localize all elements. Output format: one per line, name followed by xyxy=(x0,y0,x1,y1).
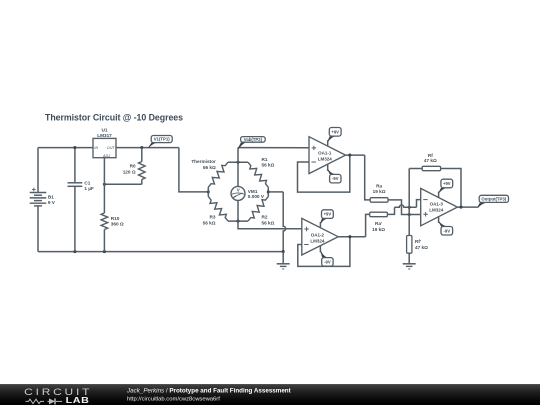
wire bottom rail xyxy=(38,251,283,253)
wire bridge bottom corner xyxy=(228,220,248,222)
node ground rail xyxy=(282,250,285,253)
flag -9V OA1-3 xyxy=(441,227,453,236)
svg-text:+9V: +9V xyxy=(443,181,451,186)
svg-text:V1(TP1): V1(TP1) xyxy=(154,137,171,142)
svg-text:Output(TP3): Output(TP3) xyxy=(481,196,506,201)
svg-text:Vab(TP2): Vab(TP2) xyxy=(244,137,263,142)
svg-text:Thermistor Circuit @ -10 Degre: Thermistor Circuit @ -10 Degrees xyxy=(45,112,183,122)
thermistor arm xyxy=(208,162,228,187)
node bridge right xyxy=(267,190,270,193)
flag -9V OA1-1 xyxy=(330,174,341,183)
svg-text:56 kΩ: 56 kΩ xyxy=(262,220,275,225)
flag -9V OA1-1 lead xyxy=(327,164,329,171)
svg-text:R10: R10 xyxy=(111,216,120,221)
wire Rf' bottom xyxy=(408,253,410,263)
flag V1(TP1) pointer xyxy=(148,143,157,149)
node battery-C1 bottom xyxy=(73,250,76,253)
flag +9V OA1-1 lead xyxy=(327,140,329,146)
svg-text:+9V: +9V xyxy=(331,129,339,134)
op-amp OA1-1 xyxy=(309,137,346,174)
svg-text:19 kΩ: 19 kΩ xyxy=(373,189,386,194)
flag -9V OA1-2 xyxy=(322,258,333,267)
svg-text:Rf’: Rf’ xyxy=(415,239,421,244)
wire VM1 bottom lead xyxy=(237,200,239,221)
battery plus sign xyxy=(32,188,36,192)
wire VM1 top lead xyxy=(237,162,239,187)
svg-text:19 kΩ: 19 kΩ xyxy=(372,227,385,232)
battery B1 xyxy=(30,192,47,194)
svg-text:56 kΩ: 56 kΩ xyxy=(203,220,216,225)
svg-text:R3: R3 xyxy=(210,215,216,220)
wire OA1-3 output xyxy=(457,206,477,208)
node OA1-2 output xyxy=(348,235,351,238)
svg-text:LM317: LM317 xyxy=(97,133,112,138)
wire battery bottom lead xyxy=(37,206,39,252)
node V1(TP1) junction xyxy=(140,146,143,149)
svg-text:1 µF: 1 µF xyxy=(84,186,94,191)
resistor R3 arm xyxy=(208,197,228,222)
svg-text:IN: IN xyxy=(94,146,98,150)
wire OA1-1 feedback xyxy=(298,155,350,192)
node minus input junction xyxy=(408,206,411,209)
wire corner to OA1-1 xyxy=(238,147,309,149)
svg-text:R0: R0 xyxy=(130,164,136,169)
wire R10 bottom lead xyxy=(103,230,105,252)
wire OA1-1 out to Ra xyxy=(365,155,371,200)
svg-text:OA1-2: OA1-2 xyxy=(311,232,325,237)
flag +9V OA1-1 xyxy=(329,128,341,137)
svg-text:LM324: LM324 xyxy=(429,208,444,213)
node bridge top xyxy=(236,161,239,164)
svg-text:R1: R1 xyxy=(262,157,268,162)
node plus input junction xyxy=(408,213,411,216)
svg-text:Ra’: Ra’ xyxy=(375,221,382,226)
resistor Ra xyxy=(370,198,388,203)
wire bridge left corner xyxy=(207,187,209,196)
svg-text:47 kΩ: 47 kΩ xyxy=(415,245,428,250)
wire OA1-1 output xyxy=(346,154,365,156)
flag -9V OA1-3 lead xyxy=(438,216,440,223)
flag +9V OA1-3 xyxy=(441,179,453,188)
wire Rf right xyxy=(441,169,461,208)
voltmeter VM1 xyxy=(231,186,245,200)
node OA1-1 output xyxy=(348,154,351,157)
resistor R2 arm xyxy=(248,197,268,222)
wire R0 top lead xyxy=(141,148,143,162)
wire OA1-2 output xyxy=(338,236,365,238)
svg-text:-9V: -9V xyxy=(324,259,331,264)
wire OA1-2 out to Ra' xyxy=(366,214,370,236)
svg-text:47 kΩ: 47 kΩ xyxy=(424,158,437,163)
node bridge left xyxy=(207,190,210,193)
flag -9V OA1-2 lead xyxy=(319,246,321,253)
svg-text:120 Ω: 120 Ω xyxy=(123,170,136,175)
ground main xyxy=(282,252,284,264)
wire bridge top corner xyxy=(228,161,248,163)
node C1 top xyxy=(73,146,76,149)
svg-text:ADJ: ADJ xyxy=(102,154,110,158)
op U1 LM317 box xyxy=(93,138,116,157)
svg-text:-9V: -9V xyxy=(444,228,451,233)
wire bridge right corner xyxy=(267,187,269,196)
wire R0 bottom lead xyxy=(141,180,143,185)
wire OA1-2 feedback xyxy=(298,237,350,267)
resistor Rf' xyxy=(407,236,412,254)
svg-text:OA1-3: OA1-3 xyxy=(430,202,444,207)
wire bridge bottom to OA1-2 + xyxy=(238,221,302,229)
svg-text:Thermistor: Thermistor xyxy=(191,159,216,164)
svg-text:56 kΩ: 56 kΩ xyxy=(262,163,275,168)
flag Output(TP3) pointer xyxy=(477,202,487,207)
svg-text:56 kΩ: 56 kΩ xyxy=(203,165,216,170)
logo resistor-diode xyxy=(26,399,45,403)
flag Output(TP3) xyxy=(479,195,508,202)
flag Vab(TP2) xyxy=(241,137,266,143)
svg-text:-9V: -9V xyxy=(332,176,339,181)
svg-text:9 V: 9 V xyxy=(48,200,56,205)
wire bridge top to corner xyxy=(237,148,239,163)
resistor Ra' xyxy=(370,212,388,217)
svg-text:0.000 V: 0.000 V xyxy=(248,194,265,199)
svg-text:LM324: LM324 xyxy=(310,238,325,243)
op-amp OA1-2 xyxy=(302,218,338,255)
svg-text:OUT: OUT xyxy=(107,146,116,150)
flag V1(TP1) xyxy=(151,136,172,143)
resistor R1 arm xyxy=(248,162,268,187)
wire Ra' to OA1-3 - xyxy=(387,207,394,214)
wire Ra to OA1-3 + xyxy=(388,200,421,215)
svg-text:360 Ω: 360 Ω xyxy=(111,222,124,227)
flag +9V OA1-2 lead xyxy=(319,222,321,228)
wire U1 OUT rail xyxy=(116,147,179,149)
node bridge bottom xyxy=(236,220,239,223)
flag +9V OA1-3 lead xyxy=(438,192,440,198)
capacitor C1 xyxy=(68,182,83,184)
wire ADJ lead xyxy=(103,158,105,213)
wire Rf left xyxy=(409,168,422,170)
svg-text:Jack_Perkins / Prototype and F: Jack_Perkins / Prototype and Fault Findi… xyxy=(126,387,291,394)
wire top rail battery to U1 IN xyxy=(38,147,93,149)
svg-text:http://circuitlab.com/cwz8cwse: http://circuitlab.com/cwz8cwsewa6rf xyxy=(127,397,220,403)
wire battery top lead xyxy=(37,148,39,193)
resistor R0 xyxy=(139,162,146,180)
svg-text:+9V: +9V xyxy=(324,212,332,217)
svg-text:V: V xyxy=(237,187,240,192)
svg-text:LAB: LAB xyxy=(66,395,90,405)
resistor Rf xyxy=(422,166,440,170)
svg-text:OA1-1: OA1-1 xyxy=(318,150,332,155)
wire Rf vertical xyxy=(408,169,410,236)
node OA1-3 output xyxy=(459,206,462,209)
svg-text:LM324: LM324 xyxy=(318,156,333,161)
wire bridge right down xyxy=(268,191,283,193)
node R10 bottom xyxy=(103,250,106,253)
wire OUT to bridge xyxy=(179,148,208,192)
svg-text:R2: R2 xyxy=(262,215,268,220)
resistor R10 xyxy=(101,213,108,230)
node ADJ junction xyxy=(103,183,106,186)
ground Rf' xyxy=(403,263,416,265)
flag +9V OA1-2 xyxy=(322,210,334,219)
wire C1 bottom lead xyxy=(74,186,76,251)
flag Vab(TP2) pointer xyxy=(238,142,246,149)
op-amp OA1-3 xyxy=(421,188,458,225)
wire C1 top lead xyxy=(74,148,76,183)
